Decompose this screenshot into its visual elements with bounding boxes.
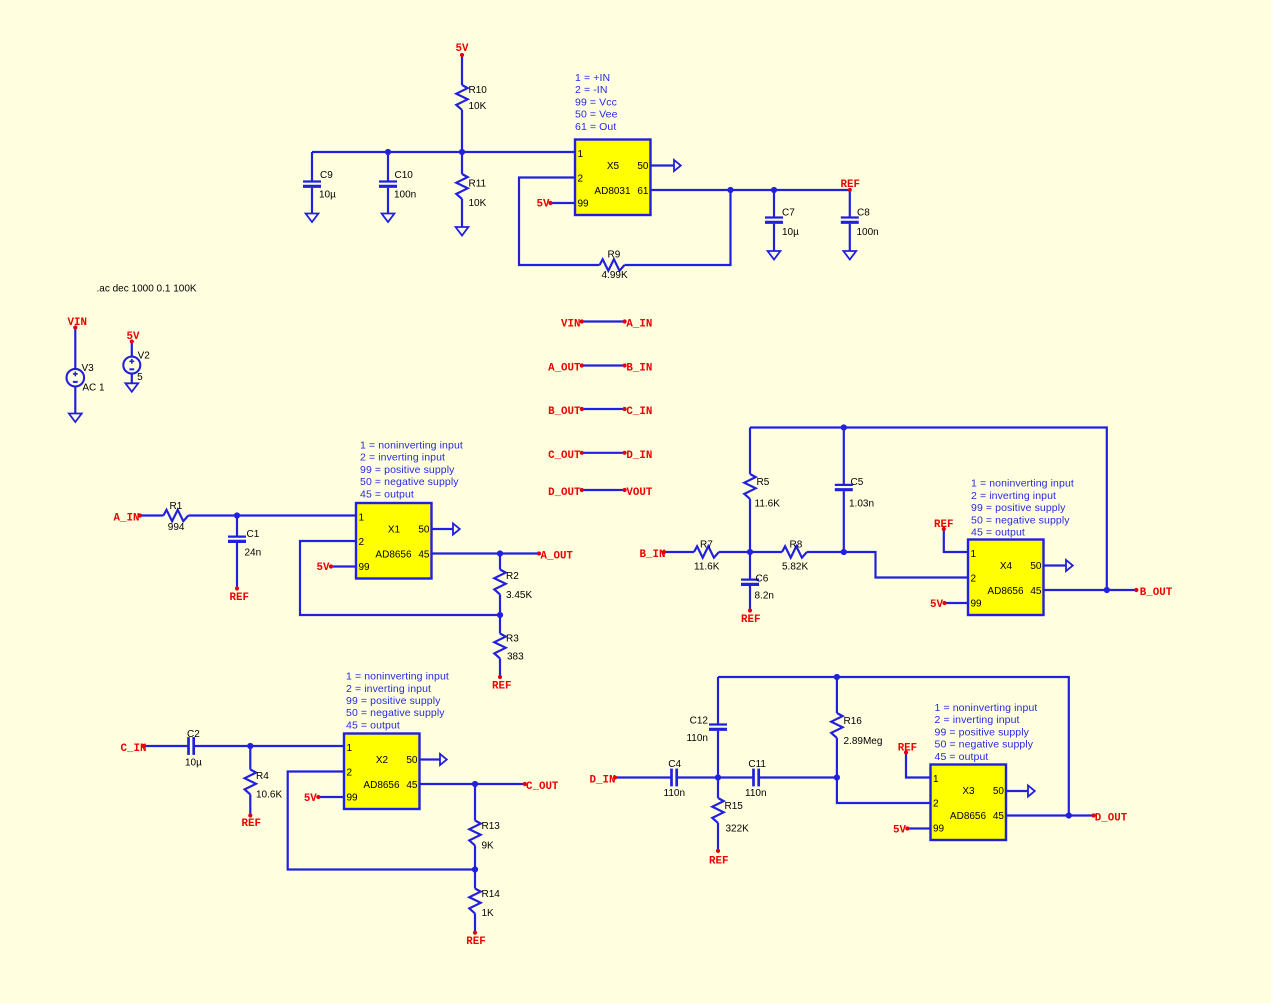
- svg-text:10.6K: 10.6K: [256, 790, 282, 801]
- svg-text:2: 2: [578, 174, 584, 185]
- svg-text:50: 50: [418, 525, 430, 536]
- svg-text:R13: R13: [482, 821, 501, 832]
- svg-text:C10: C10: [395, 170, 414, 181]
- svg-text:2 = inverting input: 2 = inverting input: [971, 490, 1056, 502]
- svg-text:50 = negative supply: 50 = negative supply: [935, 739, 1034, 751]
- svg-text:4.99K: 4.99K: [602, 270, 628, 281]
- svg-text:REF: REF: [242, 818, 261, 830]
- svg-text:1: 1: [971, 549, 977, 560]
- svg-text:11.6K: 11.6K: [694, 561, 720, 572]
- svg-text:C8: C8: [857, 208, 870, 219]
- svg-text:50: 50: [1030, 561, 1042, 572]
- svg-text:10µ: 10µ: [319, 190, 336, 201]
- svg-text:B_IN: B_IN: [626, 363, 652, 375]
- svg-text:2 = inverting input: 2 = inverting input: [346, 683, 431, 695]
- svg-text:3.45K: 3.45K: [506, 590, 532, 601]
- svg-text:VOUT: VOUT: [626, 487, 652, 499]
- svg-text:2: 2: [971, 574, 977, 585]
- svg-text:R1: R1: [170, 501, 183, 512]
- svg-text:383: 383: [507, 652, 524, 663]
- svg-text:B_IN: B_IN: [640, 549, 666, 561]
- svg-text:45 = output: 45 = output: [346, 719, 400, 731]
- svg-text:50 = negative supply: 50 = negative supply: [346, 707, 445, 719]
- svg-text:1 = noninverting input: 1 = noninverting input: [971, 478, 1074, 490]
- svg-text:5V: 5V: [304, 793, 317, 805]
- svg-text:REF: REF: [492, 681, 511, 693]
- svg-text:D_IN: D_IN: [626, 450, 652, 462]
- svg-text:A_IN: A_IN: [114, 513, 140, 525]
- svg-text:R15: R15: [725, 801, 744, 812]
- svg-text:45: 45: [993, 811, 1005, 822]
- svg-text:C4: C4: [668, 759, 681, 770]
- svg-text:1 = noninverting input: 1 = noninverting input: [346, 671, 449, 683]
- svg-text:99 = positive supply: 99 = positive supply: [360, 464, 455, 476]
- svg-text:2: 2: [359, 537, 365, 548]
- svg-text:50 = negative supply: 50 = negative supply: [971, 514, 1070, 526]
- svg-text:R2: R2: [506, 571, 519, 582]
- svg-text:45 = output: 45 = output: [935, 751, 989, 763]
- svg-text:10µ: 10µ: [782, 227, 799, 238]
- svg-text:R8: R8: [790, 539, 803, 550]
- svg-text:REF: REF: [841, 179, 860, 191]
- svg-text:REF: REF: [934, 519, 953, 531]
- svg-text:AD8656: AD8656: [363, 780, 400, 791]
- svg-text:1: 1: [347, 743, 353, 754]
- svg-text:99: 99: [933, 824, 945, 835]
- svg-text:1: 1: [933, 774, 939, 785]
- svg-text:V3: V3: [82, 363, 95, 374]
- svg-text:5.82K: 5.82K: [782, 561, 808, 572]
- svg-text:AD8656: AD8656: [375, 550, 412, 561]
- svg-text:50: 50: [637, 161, 649, 172]
- svg-text:AD8031: AD8031: [594, 186, 631, 197]
- svg-text:B_OUT: B_OUT: [1140, 587, 1173, 599]
- svg-text:VIN: VIN: [561, 319, 580, 331]
- svg-text:C1: C1: [247, 529, 260, 540]
- svg-text:AD8656: AD8656: [950, 811, 987, 822]
- svg-text:61: 61: [637, 186, 649, 197]
- svg-text:5V: 5V: [456, 43, 469, 55]
- svg-text:REF: REF: [741, 614, 760, 626]
- svg-text:50: 50: [406, 755, 418, 766]
- svg-text:R14: R14: [482, 889, 501, 900]
- svg-text:5V: 5V: [893, 824, 906, 836]
- svg-text:X2: X2: [376, 755, 389, 766]
- svg-text:50: 50: [993, 786, 1005, 797]
- svg-text:X4: X4: [1000, 561, 1013, 572]
- svg-text:R11: R11: [469, 179, 487, 190]
- svg-text:X1: X1: [388, 525, 401, 536]
- svg-text:61 = Out: 61 = Out: [575, 121, 616, 133]
- svg-text:45: 45: [406, 780, 418, 791]
- svg-text:45 = output: 45 = output: [971, 527, 1025, 539]
- svg-text:R7: R7: [700, 539, 713, 550]
- svg-text:24n: 24n: [245, 547, 262, 558]
- svg-text:2 = inverting input: 2 = inverting input: [935, 714, 1020, 726]
- svg-text:99 = positive supply: 99 = positive supply: [971, 502, 1066, 514]
- svg-text:R4: R4: [256, 771, 269, 782]
- svg-text:1K: 1K: [482, 908, 495, 919]
- svg-text:V2: V2: [138, 351, 151, 362]
- svg-text:C9: C9: [320, 170, 333, 181]
- svg-text:C12: C12: [690, 716, 709, 727]
- svg-text:D_OUT: D_OUT: [548, 487, 581, 499]
- svg-text:50 = negative supply: 50 = negative supply: [360, 476, 459, 488]
- svg-text:2 = -IN: 2 = -IN: [575, 84, 608, 96]
- svg-text:50 = Vee: 50 = Vee: [575, 109, 618, 121]
- svg-text:2.89Meg: 2.89Meg: [844, 736, 883, 747]
- svg-text:REF: REF: [709, 856, 728, 868]
- svg-text:99 = positive supply: 99 = positive supply: [935, 726, 1030, 738]
- svg-text:99: 99: [971, 599, 983, 610]
- svg-text:C7: C7: [782, 208, 795, 219]
- svg-text:110n: 110n: [686, 733, 708, 744]
- svg-text:8.2n: 8.2n: [755, 590, 774, 601]
- svg-text:2: 2: [347, 768, 353, 779]
- svg-text:45: 45: [1030, 586, 1042, 597]
- svg-text:VIN: VIN: [68, 317, 87, 329]
- svg-text:R9: R9: [608, 249, 621, 260]
- svg-text:R10: R10: [469, 85, 488, 96]
- svg-text:D_OUT: D_OUT: [1095, 812, 1128, 824]
- svg-text:99: 99: [578, 199, 590, 210]
- svg-text:.ac dec 1000 0.1 100K: .ac dec 1000 0.1 100K: [97, 284, 197, 295]
- svg-text:AC 1: AC 1: [82, 383, 105, 394]
- svg-text:2: 2: [933, 799, 939, 810]
- svg-text:A_OUT: A_OUT: [541, 551, 574, 563]
- svg-text:5: 5: [137, 372, 143, 383]
- svg-text:100n: 100n: [857, 227, 879, 238]
- svg-text:45 = output: 45 = output: [360, 488, 414, 500]
- svg-text:99: 99: [347, 793, 359, 804]
- svg-text:AD8656: AD8656: [987, 586, 1024, 597]
- svg-text:1 = +IN: 1 = +IN: [575, 72, 610, 84]
- svg-text:A_OUT: A_OUT: [548, 363, 581, 375]
- svg-text:10K: 10K: [469, 198, 487, 209]
- svg-text:REF: REF: [466, 936, 485, 948]
- svg-text:99 = positive supply: 99 = positive supply: [346, 695, 441, 707]
- svg-text:110n: 110n: [664, 788, 686, 799]
- svg-text:100n: 100n: [394, 190, 416, 201]
- svg-text:B_OUT: B_OUT: [548, 406, 581, 418]
- svg-text:5V: 5V: [537, 199, 550, 211]
- svg-text:99 = Vcc: 99 = Vcc: [575, 96, 617, 108]
- svg-text:A_IN: A_IN: [626, 319, 652, 331]
- svg-text:X3: X3: [962, 786, 975, 797]
- svg-text:R3: R3: [506, 634, 519, 645]
- svg-text:C11: C11: [748, 759, 766, 770]
- svg-text:10µ: 10µ: [185, 758, 202, 769]
- svg-text:110n: 110n: [745, 788, 767, 799]
- svg-text:1: 1: [578, 149, 584, 160]
- svg-text:9K: 9K: [482, 841, 495, 852]
- svg-text:11.6K: 11.6K: [755, 498, 781, 509]
- svg-text:5V: 5V: [317, 562, 330, 574]
- svg-text:322K: 322K: [726, 823, 750, 834]
- svg-text:10K: 10K: [469, 101, 487, 112]
- svg-text:1 = noninverting input: 1 = noninverting input: [935, 702, 1038, 714]
- svg-text:C5: C5: [851, 477, 864, 488]
- svg-text:994: 994: [168, 522, 185, 533]
- svg-text:45: 45: [418, 550, 430, 561]
- svg-text:1.03n: 1.03n: [849, 498, 874, 509]
- svg-text:C_IN: C_IN: [626, 406, 652, 418]
- svg-text:1: 1: [359, 513, 365, 524]
- svg-text:X5: X5: [607, 161, 620, 172]
- svg-text:C_IN: C_IN: [121, 743, 147, 755]
- svg-text:C_OUT: C_OUT: [548, 450, 581, 462]
- svg-text:5V: 5V: [930, 599, 943, 611]
- svg-text:D_IN: D_IN: [590, 774, 616, 786]
- svg-text:C6: C6: [756, 573, 769, 584]
- svg-text:2 = inverting input: 2 = inverting input: [360, 452, 445, 464]
- svg-text:C2: C2: [187, 729, 200, 740]
- svg-text:C_OUT: C_OUT: [526, 781, 559, 793]
- svg-text:R16: R16: [844, 716, 863, 727]
- svg-text:1 = noninverting input: 1 = noninverting input: [360, 440, 463, 452]
- svg-text:99: 99: [359, 562, 371, 573]
- svg-text:REF: REF: [230, 592, 249, 604]
- svg-text:R5: R5: [757, 477, 770, 488]
- svg-text:5V: 5V: [127, 331, 140, 343]
- svg-text:REF: REF: [898, 743, 917, 755]
